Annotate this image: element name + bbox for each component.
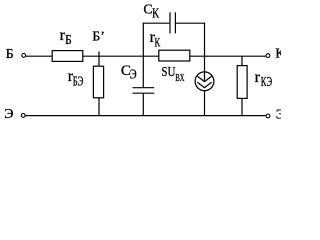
svg-text:Э: Э (130, 67, 137, 82)
svg-text:К: К (275, 47, 281, 62)
svg-text:К: К (152, 7, 160, 22)
svg-text:Э: Э (4, 107, 13, 122)
svg-text:Б: Б (65, 32, 72, 47)
svg-text:К: К (155, 35, 161, 49)
svg-text:БЭ: БЭ (73, 74, 84, 89)
svg-text:ВХ: ВХ (175, 72, 184, 84)
svg-text:r: r (255, 69, 261, 86)
svg-text:Б: Б (6, 47, 14, 62)
svg-text:SU: SU (161, 65, 175, 80)
svg-text:КЭ: КЭ (261, 74, 272, 89)
svg-text:Б’: Б’ (92, 30, 105, 45)
svg-text:Э: Э (276, 108, 281, 123)
